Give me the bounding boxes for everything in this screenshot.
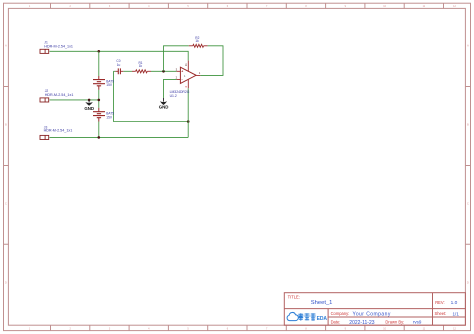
svg-text:HDR-M-2.54_1x1: HDR-M-2.54_1x1 [44, 129, 73, 133]
svg-text:11: 11 [184, 63, 188, 66]
EasyEDA logo [287, 312, 327, 322]
svg-text:4: 4 [148, 327, 150, 330]
op-amp U1.2 LM324 [177, 61, 201, 89]
svg-text:3: 3 [109, 327, 111, 330]
wire -in to GND2 [164, 79, 177, 98]
wire C0 to R1 [123, 70, 132, 72]
svg-text:C: C [5, 203, 7, 206]
svg-text:11: 11 [423, 5, 426, 8]
svg-text:EDA: EDA [317, 316, 328, 322]
svg-text:5: 5 [187, 5, 189, 8]
junction J2 / battery column [98, 99, 101, 102]
wire op-amp V- pin to bottom net [187, 88, 189, 137]
pin 2 number [176, 76, 178, 80]
svg-text:12: 12 [453, 327, 456, 330]
svg-text:TITLE:: TITLE: [288, 295, 300, 300]
svg-text:3: 3 [176, 67, 178, 71]
svg-text:5: 5 [187, 327, 189, 330]
wire net J1 to op-amp V+ [50, 51, 189, 60]
wire feedback left leg [164, 46, 189, 72]
junction feedback / +in [162, 70, 165, 73]
svg-text:1k: 1k [195, 39, 199, 43]
svg-text:A: A [467, 45, 469, 48]
wire C0 bypass down-right to V- column [114, 71, 189, 121]
op-amp name labels [170, 90, 190, 98]
op-amp +/- marks [181, 70, 183, 82]
junction bypass / V- column [187, 120, 190, 123]
svg-text:1.0: 1.0 [451, 300, 458, 306]
svg-text:Date:: Date: [331, 319, 341, 324]
junction at battery column / J1 wire [98, 50, 101, 53]
svg-text:10: 10 [383, 5, 386, 8]
svg-text:1: 1 [199, 71, 201, 75]
svg-text:+: + [181, 70, 183, 74]
svg-text:Sheet_1: Sheet_1 [311, 300, 333, 306]
title block [284, 293, 465, 326]
pin 4 number (bottom power) [184, 86, 188, 88]
wire battery column middle [98, 90, 100, 108]
svg-text:9: 9 [345, 5, 347, 8]
svg-text:1: 1 [29, 5, 31, 8]
svg-text:GND: GND [159, 105, 169, 110]
svg-text:4: 4 [148, 5, 150, 8]
svg-text:1: 1 [29, 327, 31, 330]
svg-text:HDR-M-2.54_1x1: HDR-M-2.54_1x1 [44, 45, 73, 49]
junction GND1 tap [88, 99, 91, 102]
battery BAT5 [93, 108, 105, 122]
svg-text:9: 9 [345, 327, 347, 330]
svg-text:10: 10 [383, 327, 386, 330]
op-amp unit mark [184, 74, 186, 78]
resistor R2 [189, 44, 208, 47]
battery BAT9 [93, 76, 105, 90]
svg-text:7: 7 [266, 5, 268, 8]
svg-text:2022-11-23: 2022-11-23 [349, 320, 374, 326]
svg-text:Your Company: Your Company [353, 312, 391, 318]
svg-text:12: 12 [453, 5, 456, 8]
svg-text:REV:: REV: [435, 300, 444, 305]
svg-text:4: 4 [184, 86, 188, 88]
resistor R1 [132, 70, 151, 73]
capacitor C0 [115, 68, 123, 74]
svg-text:1k: 1k [139, 64, 143, 68]
svg-text:D: D [467, 281, 469, 284]
svg-text:D: D [5, 281, 7, 284]
svg-text:1: 1 [184, 74, 186, 78]
svg-text:HDR-M-2.54_1x1: HDR-M-2.54_1x1 [45, 93, 74, 97]
svg-text:-: - [182, 78, 183, 82]
junction J3 / battery column [98, 136, 101, 139]
svg-text:2: 2 [70, 327, 72, 330]
svg-text:2: 2 [176, 76, 178, 80]
svg-text:15V: 15V [106, 115, 113, 119]
ground GND2 [159, 98, 169, 110]
connector J2 HDR-M-2.54_1x1 [40, 98, 49, 102]
ground GND1 [84, 100, 94, 111]
wire J3 bottom net [50, 136, 189, 138]
svg-text:GND: GND [84, 106, 94, 111]
svg-text:B: B [5, 124, 7, 127]
svg-text:A: A [5, 45, 7, 48]
pin 3 number [176, 67, 178, 71]
wire battery column bottom [98, 122, 100, 138]
wire J2 to battery column [50, 99, 99, 101]
svg-text:Company:: Company: [331, 311, 350, 316]
svg-text:7: 7 [266, 327, 268, 330]
svg-text:6: 6 [227, 5, 229, 8]
svg-text:1/1: 1/1 [453, 311, 460, 316]
svg-text:8: 8 [305, 327, 307, 330]
wire C0 left stub [114, 70, 116, 72]
pin 1 number (output) [199, 71, 201, 75]
svg-text:C: C [467, 203, 469, 206]
wire R1 to op-amp +in [151, 70, 177, 72]
connector J1 HDR-M-2.54_1x1 [40, 49, 49, 53]
svg-text:15V: 15V [106, 83, 113, 87]
svg-text:6: 6 [227, 327, 229, 330]
svg-text:Drawn By:: Drawn By: [385, 319, 404, 324]
svg-text:B: B [467, 124, 469, 127]
pin 11 number (top power) [184, 63, 188, 66]
wire feedback right leg [200, 46, 223, 76]
svg-text:8: 8 [305, 5, 307, 8]
svg-text:Sheet:: Sheet: [435, 311, 447, 316]
connector J3 HDR-M-2.54_1x1 [40, 135, 49, 139]
svg-text:11: 11 [423, 327, 426, 330]
wire battery column top [98, 51, 100, 76]
svg-text:rvs9: rvs9 [413, 320, 422, 325]
svg-text:3: 3 [109, 5, 111, 8]
svg-text:1u: 1u [117, 63, 121, 67]
svg-text:2: 2 [70, 5, 72, 8]
svg-text:U1.2: U1.2 [170, 94, 177, 98]
